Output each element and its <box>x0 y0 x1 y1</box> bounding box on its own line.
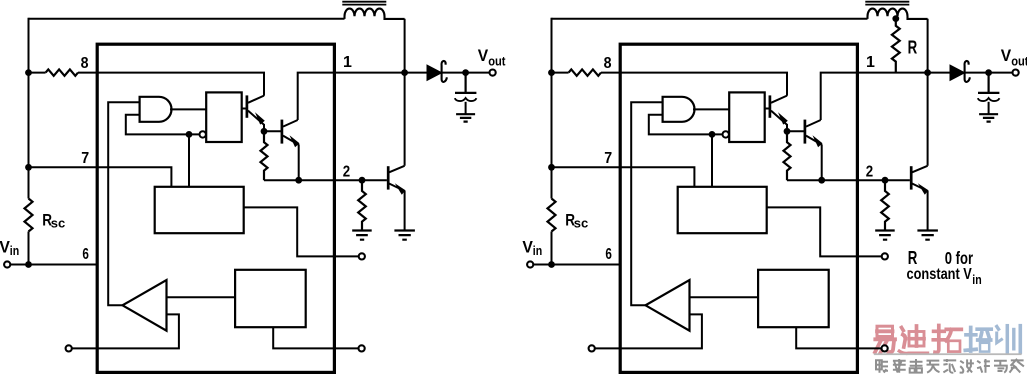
node pin1 junction 1 <box>401 69 408 76</box>
wire pin8 stub right 1 <box>78 72 97 74</box>
transistor Q2 1 <box>247 95 265 131</box>
node pin8 junction 1 <box>25 69 32 76</box>
svg-text:in: in <box>10 243 19 258</box>
wire reference to comparator 2 <box>690 296 759 298</box>
node pin8 junction 2 <box>548 69 555 76</box>
latch input bubble 2 <box>723 131 729 137</box>
svg-text:out: out <box>488 54 506 69</box>
comparator triangle 2 <box>646 280 690 331</box>
ground Q3 emitter 2 <box>917 231 938 240</box>
wire pin8 rail to Q2 collector 2 <box>620 73 787 96</box>
inductor core lines 1 <box>342 2 386 5</box>
node latch feedback junction 2 <box>709 131 716 138</box>
resistor Q2 emitter 2 <box>784 131 791 180</box>
IC U1 box outline <box>97 44 334 372</box>
ground Q3 emitter 1 <box>394 231 415 240</box>
node Q2 emitter junction 1 <box>261 128 268 135</box>
svg-text:7: 7 <box>604 150 612 167</box>
wire top rail 1 <box>29 18 345 20</box>
wire pin2 out 2 <box>858 179 910 181</box>
wire oscillator output 2 <box>767 207 882 256</box>
terminal Vin 1 <box>4 261 10 267</box>
wire comparator output to AND gate 1 <box>108 102 139 305</box>
diode 2 <box>950 61 970 82</box>
wire diode to Vout 2 <box>965 72 1013 74</box>
oscillator block 1 <box>155 187 244 233</box>
svg-text:in: in <box>972 273 981 287</box>
node Q1 emitter junction 2 <box>818 177 825 184</box>
comparator triangle 1 <box>123 280 167 331</box>
svg-text:1: 1 <box>866 54 875 71</box>
wire pin7 1 <box>29 167 172 187</box>
wire pin8 stub left 2 <box>552 72 569 74</box>
wire diode to Vout 1 <box>442 72 490 74</box>
node pin2 junction 1 <box>359 177 366 184</box>
latch input bubble 1 <box>200 131 206 137</box>
ground external base resistor 1 <box>352 231 372 240</box>
wire pin2 out 1 <box>335 179 387 181</box>
transistor external Q3 1 <box>388 166 405 231</box>
op-amp AND gate 2 <box>663 97 695 122</box>
wire left vertical lower 1 <box>28 232 30 265</box>
svg-text:sc: sc <box>51 215 66 230</box>
svg-text:8: 8 <box>604 55 612 72</box>
node pin7 junction 1 <box>25 164 32 171</box>
svg-text:in: in <box>533 243 542 258</box>
wire latch to Q2 base 2 <box>765 108 770 110</box>
terminal Vout 1 <box>490 70 496 76</box>
node latch feedback junction 1 <box>186 131 193 138</box>
wire Q1 base 1 <box>264 130 281 132</box>
wire pin1 out 1 <box>335 72 428 74</box>
transistor Q1 2 <box>805 120 823 181</box>
wire Q3 collector vertical 2 <box>927 19 929 166</box>
wire left vertical upper 2 <box>551 18 553 199</box>
inductor 1 <box>345 9 405 19</box>
node Vin junction 2 <box>548 261 555 268</box>
wire junction to oscillator 2 <box>711 134 713 186</box>
latch block 1 <box>206 92 242 142</box>
ground output capacitor 1 <box>456 114 475 121</box>
wire pin8 stub right 2 <box>601 72 620 74</box>
node output junction 1 <box>462 69 469 76</box>
watermark slogan text 射频和天线设计专家 <box>876 359 1024 373</box>
watermark underline <box>874 353 1022 355</box>
svg-text:7: 7 <box>81 150 89 167</box>
wire pin8 stub left 1 <box>29 72 46 74</box>
terminal feedback 2 <box>589 345 595 351</box>
wire AND output to latch 1 <box>170 108 206 110</box>
svg-text:V: V <box>478 46 489 65</box>
resistor on pin 8 2 <box>569 69 601 75</box>
svg-text:sc: sc <box>574 215 589 230</box>
capacitor output 1 <box>455 73 477 114</box>
wire left vertical lower 2 <box>551 232 553 265</box>
node output junction 2 <box>985 69 992 76</box>
wire reference ground pin 2 <box>796 327 881 348</box>
wire Q1 base 2 <box>787 130 804 132</box>
ground output capacitor 2 <box>979 114 998 121</box>
wire oscillator output 1 <box>244 207 359 256</box>
reference block 1 <box>235 270 306 327</box>
svg-text:V: V <box>1001 46 1012 65</box>
resistor R (right) <box>892 19 900 73</box>
terminal ground pin 1 <box>359 345 365 351</box>
wire junction to oscillator 1 <box>188 134 190 186</box>
wire pin2 inside 1 <box>264 179 335 181</box>
node pin1 junction 2 <box>924 69 931 76</box>
wire pin1 rail to Q1 collector 1 <box>298 73 335 120</box>
transistor Q2 2 <box>770 95 788 131</box>
resistor Q2 emitter 1 <box>261 131 268 180</box>
node pin2 junction 2 <box>882 177 889 184</box>
capacitor output 2 <box>978 73 1000 114</box>
reference block 2 <box>758 270 829 327</box>
svg-text:R: R <box>908 37 918 57</box>
ground external base resistor 2 <box>875 231 895 240</box>
wire left vertical upper 1 <box>28 18 30 199</box>
op-amp AND gate 1 <box>140 97 172 122</box>
wire Q3 collector vertical 1 <box>404 19 406 166</box>
resistor external base 2 <box>881 180 889 230</box>
watermark logo text 易迪拓培训 <box>875 326 1020 354</box>
node Vin junction 1 <box>25 261 32 268</box>
terminal Vout 2 <box>1013 70 1019 76</box>
wire comparator inverting input to FB terminal 2 <box>595 314 702 348</box>
terminal feedback 1 <box>66 345 72 351</box>
wire AND gate lower input feedback 1 <box>126 115 200 135</box>
latch block 2 <box>729 92 765 142</box>
oscillator block 2 <box>678 187 767 233</box>
resistor on pin 8 1 <box>46 69 78 75</box>
resistor Rsc 2 <box>548 199 556 232</box>
node Q2 emitter junction 2 <box>784 128 791 135</box>
node inductor tap (right) <box>892 15 899 22</box>
wire pin8 rail to Q2 collector 1 <box>97 73 264 96</box>
resistor Rsc 1 <box>25 199 33 232</box>
diode 1 <box>427 61 447 82</box>
svg-text:constant V: constant V <box>907 266 973 283</box>
terminal Vin 2 <box>527 261 533 267</box>
wire top rail 2 <box>552 18 868 20</box>
transistor Q1 1 <box>282 120 300 181</box>
svg-text:2: 2 <box>866 163 873 180</box>
svg-text:R: R <box>908 248 918 268</box>
svg-text:1: 1 <box>343 54 352 71</box>
wire pin1 out 2 <box>858 72 951 74</box>
IC U2 box outline <box>620 44 857 372</box>
transistor external Q3 2 <box>911 166 928 231</box>
wire pin1 rail to Q1 collector 2 <box>821 73 858 120</box>
wire pin6 2 <box>534 264 621 266</box>
terminal timing capacitor 1 <box>359 253 365 259</box>
svg-text:6: 6 <box>605 246 612 263</box>
resistor external base 1 <box>358 180 366 230</box>
wire pin2 inside 2 <box>787 179 858 181</box>
wire latch to Q2 base 1 <box>242 108 247 110</box>
inductor 2 <box>868 9 928 19</box>
svg-text:8: 8 <box>81 55 89 72</box>
wire reference ground pin 1 <box>273 327 358 348</box>
wire pin6 1 <box>11 264 98 266</box>
wire AND output to latch 2 <box>693 108 729 110</box>
wire pin7 2 <box>552 167 695 187</box>
wire comparator output to AND gate 2 <box>631 102 662 305</box>
svg-text:2: 2 <box>343 163 350 180</box>
terminal timing capacitor 2 <box>882 253 888 259</box>
terminal ground pin 2 <box>882 345 888 351</box>
svg-text:out: out <box>1011 54 1027 69</box>
node pin7 junction 2 <box>548 164 555 171</box>
wire reference to comparator 1 <box>167 296 236 298</box>
svg-text:6: 6 <box>82 246 89 263</box>
node Q1 emitter junction 1 <box>295 177 302 184</box>
wire AND gate lower input feedback 2 <box>649 115 723 135</box>
inductor core lines 2 <box>865 2 909 5</box>
wire comparator inverting input to FB terminal 1 <box>72 314 179 348</box>
